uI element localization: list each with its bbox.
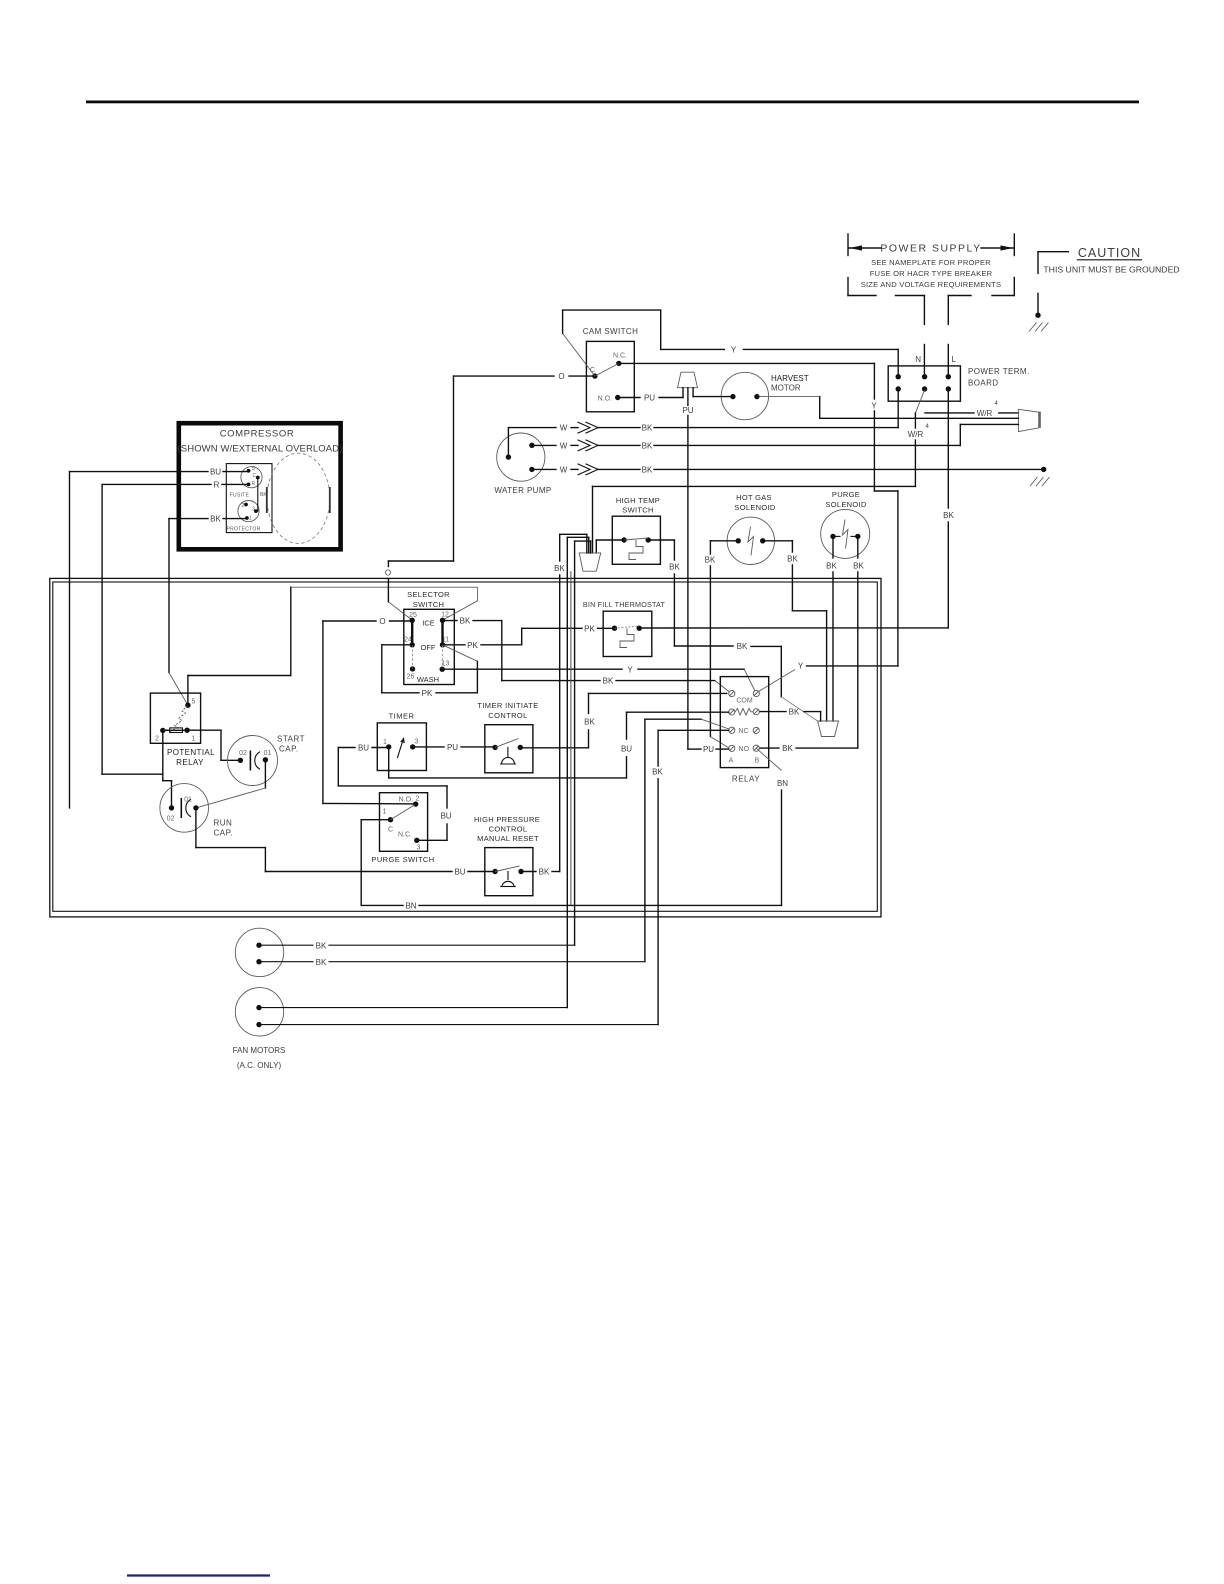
svg-text:W/R: W/R: [908, 430, 924, 439]
svg-text:2: 2: [242, 503, 245, 509]
svg-text:1: 1: [249, 516, 252, 522]
wire Y selector 13 to relay COM-B: [442, 665, 755, 691]
svg-text:PK: PK: [467, 641, 478, 650]
wire O riser to purge switch NO-2: [323, 802, 416, 805]
wire selector 11/24 junction to relay COM-A (PK): [382, 645, 478, 698]
svg-text:ICE: ICE: [422, 619, 435, 628]
wire purge solenoid left BK to nut3: [826, 536, 837, 721]
water pump: [494, 433, 551, 495]
svg-text:CAP.: CAP.: [214, 829, 234, 838]
svg-text:CONTROL: CONTROL: [489, 825, 528, 834]
svg-text:BK: BK: [642, 466, 653, 475]
wire hot gas left BK to relay NO: [705, 541, 739, 748]
svg-text:BK: BK: [789, 708, 800, 717]
svg-text:02: 02: [167, 816, 175, 823]
svg-text:START: START: [277, 735, 305, 744]
svg-text:RELAY: RELAY: [732, 775, 760, 784]
svg-text:A: A: [729, 758, 734, 765]
wire nut (PU): [678, 372, 698, 397]
svg-text:24: 24: [404, 637, 412, 644]
svg-text:PU: PU: [682, 406, 693, 415]
svg-text:BK: BK: [652, 768, 663, 777]
svg-text:MANUAL RESET: MANUAL RESET: [477, 834, 539, 843]
svg-text:BU: BU: [440, 812, 451, 821]
svg-text:FAN MOTORS: FAN MOTORS: [233, 1046, 286, 1055]
purge switch: [371, 793, 434, 864]
svg-text:PU: PU: [703, 745, 714, 754]
svg-text:BK: BK: [316, 958, 327, 967]
wire relay coil B2 BK to nut3: [760, 708, 821, 721]
timer initiate control: [477, 701, 538, 773]
connector plug: [1018, 409, 1040, 431]
wire BU timer-1 to relay coil A2: [389, 712, 729, 778]
wire PU to relay NO-A: [688, 745, 729, 754]
wire nut2 to fan motor 2 upper: [567, 537, 588, 1007]
svg-text:O: O: [379, 617, 385, 626]
wire W line2 (water pump to plug): [532, 440, 960, 451]
svg-text:NO: NO: [739, 746, 750, 753]
svg-text:PROTECTOR: PROTECTOR: [227, 527, 261, 533]
svg-text:02: 02: [239, 750, 247, 757]
wire BN relay NO-B to purge switch C: [361, 748, 788, 910]
wire W/R slant from term board to nut riser: [908, 390, 930, 486]
wire O into cam switch C: [454, 372, 595, 381]
svg-text:3: 3: [417, 845, 421, 852]
svg-text:COM: COM: [736, 698, 753, 705]
svg-text:BK: BK: [603, 677, 614, 686]
svg-text:PK: PK: [422, 689, 433, 698]
svg-text:N: N: [915, 355, 921, 364]
svg-text:WASH: WASH: [417, 675, 439, 684]
svg-text:BK: BK: [260, 492, 267, 498]
wire BU into timer 1: [338, 744, 451, 841]
wire nut 2: [579, 553, 601, 571]
svg-text:POTENTIAL: POTENTIAL: [167, 748, 215, 757]
svg-text:(SHOWN W/EXTERNAL OVERLOAD): (SHOWN W/EXTERNAL OVERLOAD): [178, 444, 343, 455]
svg-text:BN: BN: [777, 779, 788, 788]
svg-text:SIZE AND VOLTAGE REQUIREMENTS: SIZE AND VOLTAGE REQUIREMENTS: [861, 280, 1002, 289]
svg-text:(A.C. ONLY): (A.C. ONLY): [237, 1061, 282, 1070]
svg-text:POWER SUPPLY: POWER SUPPLY: [880, 243, 981, 255]
wire relay1 to start cap 02: [187, 730, 240, 760]
control box (double border): [50, 578, 881, 917]
svg-text:BK: BK: [669, 563, 680, 572]
wire high temp left to nut2: [596, 540, 624, 553]
svg-text:BK: BK: [853, 562, 864, 571]
ground (caution): [1029, 293, 1049, 331]
purge solenoid: [821, 490, 870, 558]
svg-text:PU: PU: [644, 394, 655, 403]
svg-text:N.O.: N.O.: [598, 396, 612, 403]
svg-text:SEE NAMEPLATE FOR PROPER: SEE NAMEPLATE FOR PROPER: [871, 258, 991, 267]
wire N from power supply: [915, 296, 924, 375]
svg-text:N.O.: N.O.: [399, 797, 413, 804]
svg-text:2: 2: [155, 736, 159, 743]
wire O cam-switch loop down to selector 25: [385, 376, 454, 602]
svg-text:SOLENOID: SOLENOID: [825, 500, 866, 509]
wire PU down from nut to relay NO: [682, 388, 693, 749]
svg-text:BOARD: BOARD: [968, 379, 998, 388]
svg-text:SELECTOR: SELECTOR: [407, 590, 450, 599]
svg-text:PURGE SWITCH: PURGE SWITCH: [371, 855, 434, 864]
wire R compressor: [102, 481, 248, 775]
wire BU run cap 01 to high pressure control: [196, 808, 495, 877]
wire BK compressor: [169, 515, 247, 706]
svg-text:2: 2: [416, 796, 420, 803]
svg-text:BK: BK: [460, 617, 471, 626]
wire BK term board right down to thermostat: [639, 389, 954, 628]
svg-text:HOT GAS: HOT GAS: [736, 493, 772, 502]
svg-text:NC: NC: [738, 728, 748, 735]
svg-text:3: 3: [415, 739, 419, 746]
svg-text:B: B: [755, 758, 760, 765]
compressor: [178, 423, 343, 549]
wire cam N.C. to right side (Y): [619, 363, 898, 666]
svg-text:C: C: [388, 827, 393, 834]
svg-text:1: 1: [383, 809, 387, 816]
wire W line1 (water pump to term board): [508, 389, 898, 457]
wire Y right side to relay COM-B: [759, 662, 898, 692]
wire purge solenoid right BK to relay NO-B: [760, 536, 864, 753]
svg-text:BK: BK: [782, 744, 793, 753]
svg-text:W: W: [560, 424, 568, 433]
svg-text:W/R: W/R: [977, 409, 993, 418]
svg-text:HIGH TEMP: HIGH TEMP: [616, 496, 660, 505]
svg-text:BK: BK: [737, 642, 748, 651]
bin fill thermostat: [583, 600, 666, 657]
svg-text:25: 25: [409, 612, 417, 619]
high pressure control: [474, 815, 540, 896]
wire cam top loop (Y) to term board: [563, 310, 899, 376]
svg-text:HARVEST: HARVEST: [771, 374, 809, 383]
svg-text:BN: BN: [405, 902, 416, 911]
wire nut2 bottom tail: [570, 571, 572, 905]
wire cam N.O. PU to wire nut: [618, 394, 683, 403]
svg-text:TIMER: TIMER: [389, 712, 415, 721]
power supply label: [861, 243, 1002, 290]
wire BK high pressure right to nut2: [521, 534, 587, 876]
svg-text:BU: BU: [454, 868, 465, 877]
wire O purge switch riser to selector 25: [323, 617, 412, 803]
svg-text:O: O: [558, 372, 564, 381]
svg-text:PK: PK: [584, 624, 595, 633]
svg-text:MOTOR: MOTOR: [771, 384, 801, 393]
svg-text:PU: PU: [447, 743, 458, 752]
wire high temp right BK to relay area: [648, 540, 817, 721]
svg-text:BK: BK: [584, 717, 595, 726]
svg-text:TIMER INITIATE: TIMER INITIATE: [477, 701, 538, 710]
fan motor 1: [235, 928, 645, 976]
svg-text:CAUTION: CAUTION: [1078, 246, 1141, 260]
svg-text:N.C.: N.C.: [613, 353, 627, 360]
svg-text:BK: BK: [943, 511, 954, 520]
wire nut2 to fan motor 1 upper: [575, 541, 591, 945]
svg-text:SWITCH: SWITCH: [622, 506, 653, 515]
svg-text:BU: BU: [621, 745, 632, 754]
svg-text:R: R: [252, 481, 256, 487]
svg-text:5: 5: [192, 699, 196, 706]
svg-text:BU: BU: [210, 468, 221, 477]
wire harvest motor to plug line2: [757, 397, 1019, 419]
wire fan motor BK to relay NC-A (lower): [652, 730, 729, 1024]
svg-text:POWER TERM.: POWER TERM.: [968, 367, 1030, 376]
svg-text:WATER PUMP: WATER PUMP: [494, 486, 551, 495]
relay: [720, 677, 768, 784]
svg-text:OFF: OFF: [421, 643, 436, 652]
wire C to protector 3: [258, 478, 268, 512]
svg-text:Y: Y: [871, 402, 877, 411]
svg-text:FUSITE: FUSITE: [230, 493, 250, 499]
cam switch: [583, 327, 639, 412]
compressor fusite terminals: [230, 466, 262, 499]
harvest motor: [693, 372, 809, 419]
power supply bracket: [848, 234, 1014, 296]
svg-text:N.C.: N.C.: [398, 832, 412, 839]
svg-text:BK: BK: [787, 555, 798, 564]
svg-text:3: 3: [252, 507, 255, 513]
start cap: [228, 735, 305, 786]
svg-text:BK: BK: [826, 562, 837, 571]
svg-text:C: C: [253, 473, 257, 479]
svg-text:W: W: [560, 442, 568, 451]
svg-text:CAP.: CAP.: [279, 745, 299, 754]
svg-text:BIN FILL THERMOSTAT: BIN FILL THERMOSTAT: [583, 600, 666, 609]
svg-text:01: 01: [184, 797, 192, 804]
svg-text:SWITCH: SWITCH: [413, 600, 444, 609]
svg-text:12: 12: [441, 612, 449, 619]
svg-text:O: O: [385, 569, 391, 578]
svg-text:1: 1: [383, 739, 387, 746]
high temp switch: [612, 496, 660, 564]
timer: [377, 712, 426, 771]
svg-text:HIGH PRESSURE: HIGH PRESSURE: [474, 815, 540, 824]
svg-text:13: 13: [442, 661, 450, 668]
svg-text:BK: BK: [642, 442, 653, 451]
run cap: [160, 784, 233, 838]
caution note: [1038, 246, 1180, 275]
wire W line3 (water pump to ground): [532, 464, 1044, 475]
wire PK selector 11 to bin thermostat: [443, 624, 615, 650]
wire start cap 01 to run cap right: [196, 760, 266, 808]
svg-text:CAM SWITCH: CAM SWITCH: [583, 327, 639, 336]
svg-text:BK: BK: [316, 941, 327, 950]
svg-text:THIS UNIT MUST BE GROUNDED: THIS UNIT MUST BE GROUNDED: [1043, 265, 1179, 275]
svg-text:26: 26: [407, 674, 415, 681]
wire R to relay2 junction: [102, 773, 163, 775]
wire relay2 to run cap 02: [163, 730, 172, 808]
svg-text:W: W: [560, 466, 568, 475]
svg-text:PURGE: PURGE: [832, 490, 860, 499]
svg-text:BU: BU: [358, 744, 369, 753]
potential relay: [150, 693, 215, 767]
ground (right): [1030, 467, 1050, 486]
wire hot gas right BK to nut3: [763, 541, 827, 721]
wire PU timer 3 to timer initiate: [413, 743, 495, 752]
power term board: [888, 366, 1029, 401]
svg-text:BK: BK: [539, 868, 550, 877]
svg-text:CONTROL: CONTROL: [488, 711, 527, 720]
svg-text:Y: Y: [731, 346, 737, 355]
wire plug line3 down to W line2: [960, 424, 1018, 445]
svg-text:01: 01: [264, 750, 272, 757]
fan motor 2: [233, 988, 658, 1070]
wire from W/R riser down-left to nut2: [593, 486, 916, 553]
wire timer initiate BK to relay COM-A: [520, 693, 727, 747]
svg-text:R: R: [214, 481, 220, 490]
selector switch: [292, 587, 478, 684]
svg-text:Y: Y: [798, 662, 804, 671]
wire BU compressor: [70, 468, 249, 808]
svg-text:Y: Y: [627, 665, 633, 674]
svg-text:COMPRESSOR: COMPRESSOR: [220, 429, 295, 440]
wire W/R line1 to plug: [925, 401, 1018, 418]
wire relay5 up to selector 12 banner: [188, 587, 291, 705]
svg-text:BK: BK: [210, 515, 221, 524]
wire fan motor BK to relay NC-A (upper): [645, 719, 729, 962]
svg-text:1: 1: [192, 736, 196, 743]
svg-text:BK: BK: [554, 564, 565, 573]
wire L from power supply: [948, 296, 956, 375]
compressor protector terminals: [227, 501, 261, 533]
svg-text:BK: BK: [642, 424, 653, 433]
svg-text:FUSE OR HACR TYPE BREAKER: FUSE OR HACR TYPE BREAKER: [870, 269, 993, 278]
hot gas solenoid: [727, 493, 776, 565]
wire nut 3: [818, 721, 839, 737]
svg-text:SOLENOID: SOLENOID: [734, 503, 775, 512]
wire BK selector 12 to relay COM-A: [443, 617, 730, 692]
svg-text:BK: BK: [705, 556, 716, 565]
svg-text:RUN: RUN: [214, 819, 233, 828]
svg-text:L: L: [952, 355, 957, 364]
svg-text:RELAY: RELAY: [176, 758, 204, 767]
